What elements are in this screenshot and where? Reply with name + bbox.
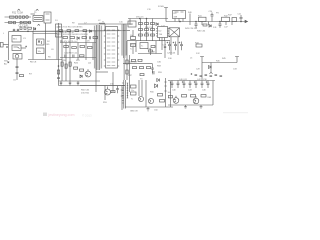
relay RL1 box (44, 12, 51, 23)
wire rail-b (9, 30, 62, 32)
Q10 pins left (104, 30, 106, 66)
node x-mark (8, 62, 10, 64)
resistor R15 (64, 46, 69, 48)
node 5VSB stub (164, 8, 168, 22)
node dot g (180, 21, 181, 22)
capacitor C9 (90, 36, 91, 39)
Q6 legs (174, 96, 176, 102)
Q3 legs (106, 87, 108, 95)
resistor R21 (65, 64, 67, 68)
thermistor TH1 (28, 21, 31, 24)
resistor R14 (93, 37, 98, 39)
resistor CR1 (145, 23, 149, 25)
capacitor C22 (195, 22, 198, 29)
wire vert178 (177, 37, 179, 55)
watermark streak (223, 112, 248, 113)
wire vert127 (126, 41, 128, 80)
wire trunk45 (45, 23, 47, 60)
resistor R27 (126, 70, 128, 74)
relay K1 mark (14, 47, 20, 49)
diode block D1 (56, 24, 62, 37)
transistor Q5 (148, 98, 153, 103)
box M3 (140, 43, 148, 49)
wire stub232 (231, 22, 233, 26)
svg-text:R5: R5 (47, 44, 51, 46)
node dot h (196, 21, 197, 22)
optocoupler U4 box (37, 39, 45, 45)
capacitor C20 (211, 13, 214, 22)
svg-text:U2: U2 (159, 31, 163, 33)
svg-text:10c: 10c (38, 51, 42, 53)
svg-text:U3: U3 (174, 13, 178, 15)
transistor Q6 (173, 98, 179, 104)
svg-text:R63: R63 (208, 97, 213, 99)
node stub2 (235, 57, 239, 63)
svg-text:R25: R25 (74, 63, 79, 65)
resistor CR4 (151, 29, 155, 31)
resistor R39 (138, 59, 142, 61)
capacitor C1 (20, 27, 22, 29)
U3 inner text (175, 11, 184, 13)
wire vert122 (121, 86, 123, 111)
svg-text:R47: R47 (228, 15, 233, 17)
resistor R12 (70, 37, 75, 39)
node tick1 (121, 89, 123, 91)
wire mainrail (20, 30, 130, 33)
svg-text:R53: R53 (103, 102, 108, 104)
wire rail53 (138, 53, 162, 55)
diode D0 (34, 28, 36, 31)
resistor R22 (69, 62, 71, 66)
svg-text:D15 R51: D15 R51 (81, 93, 90, 95)
wire railtop80 (168, 80, 215, 82)
capacitor C41 (177, 81, 180, 89)
node plus p3 (25, 46, 27, 48)
svg-text:R9: R9 (72, 23, 75, 25)
svg-text:R37: R37 (128, 75, 133, 77)
capacitor CX2 (19, 16, 21, 18)
svg-text:L5: L5 (190, 58, 193, 60)
svg-text:C40: C40 (172, 90, 177, 92)
node arrow out (245, 20, 248, 22)
wire vert93 (92, 43, 94, 61)
optocoupler U4 mark (38, 41, 42, 45)
transformer T3 core (124, 80, 126, 109)
wire bottom rail107 (125, 106, 173, 108)
transistor module box Q10 (106, 27, 118, 69)
diode P5 (90, 30, 92, 32)
wire rail72 (96, 71, 108, 73)
capacitor C11 (73, 55, 74, 58)
wire (210, 63, 212, 73)
node plus1 (6, 46, 8, 48)
capacitor C31 (210, 76, 213, 77)
resistor R48 (203, 24, 207, 26)
capacitor C46 (207, 81, 210, 89)
capacitor C14 (77, 81, 79, 86)
inductor L1 filter box (33, 16, 43, 22)
connector edge (0, 43, 3, 48)
wire trunk57 (56, 31, 58, 59)
wire vert105 (104, 86, 106, 101)
node plus t3 (179, 42, 181, 44)
transformer T2b core (123, 24, 125, 58)
wire rail59 (28, 59, 62, 61)
resistor CT3 (139, 34, 143, 36)
wire rail81 (59, 80, 101, 82)
resistor R18 (88, 47, 93, 49)
node tick3 (164, 82, 166, 91)
resistor R52 (111, 91, 115, 93)
svg-text:C5: C5 (13, 80, 17, 82)
svg-text:C10 R19 C11: C10 R19 C11 (64, 53, 78, 55)
resistor R38 (132, 59, 136, 61)
wire stub202 (201, 22, 203, 26)
svg-text:R7: R7 (29, 74, 33, 76)
resistor RM1 (131, 37, 136, 40)
resistor R56 (158, 94, 163, 97)
resistor P2 (67, 30, 71, 32)
resistor R42 (222, 17, 230, 21)
svg-text:AC: AC (4, 63, 7, 66)
wire vert78 (77, 43, 79, 61)
wire stub226 (225, 22, 227, 26)
wire rail63 (123, 63, 153, 65)
resistor R61 (191, 95, 196, 98)
svg-text:750: 750 (159, 34, 163, 36)
resistor R64 (168, 96, 172, 98)
wire vert139 (138, 80, 140, 96)
resistor RX2 (24, 21, 28, 23)
resistor R60 (182, 95, 187, 98)
resistor R54 (131, 85, 137, 88)
wire vert152c (152, 19, 154, 41)
node dot r2 (58, 66, 59, 67)
wire T2b tail (123, 58, 125, 80)
capacitor C42 (183, 81, 186, 89)
node 12V stub (200, 57, 204, 81)
wire (31, 13, 36, 15)
wire left trunk (8, 31, 10, 60)
resistor R26 (126, 60, 128, 64)
svg-text:jestineyong.com: jestineyong.com (48, 113, 75, 117)
wire rail40 (127, 40, 170, 42)
resistor CT2 (139, 29, 143, 31)
switch box S1 (13, 54, 22, 60)
wire rail62 (202, 62, 237, 64)
capacitor C25 (168, 42, 171, 51)
resistor CR7 (151, 46, 155, 48)
resistor R1 (28, 27, 32, 29)
resistor R16 (72, 47, 77, 49)
wire (16, 59, 18, 80)
capacitor CX5 (20, 21, 22, 23)
wire rail85 (59, 85, 126, 87)
capacitor C17b (164, 47, 166, 48)
svg-text:C28: C28 (196, 69, 201, 71)
capacitor C26 (174, 42, 177, 51)
capacitor C4 (16, 73, 19, 74)
wire rail42 (60, 42, 96, 44)
svg-text:C43: C43 (188, 90, 193, 92)
wire (189, 14, 191, 22)
diode D10 (156, 23, 158, 26)
Q10 pins right (118, 30, 120, 66)
resistor CT1 (139, 23, 143, 25)
svg-text:R56: R56 (150, 92, 155, 94)
fuse F1 (10, 16, 15, 18)
svg-text:L: L (3, 33, 5, 35)
wire vert150 (150, 49, 152, 56)
diode block mark (57, 27, 61, 34)
Q7 legs (194, 96, 196, 102)
wire vert133 (132, 30, 134, 37)
wire rail57 (60, 57, 96, 59)
svg-text:C47: C47 (224, 27, 229, 29)
ground 2 (184, 105, 187, 108)
wire vert156 (155, 41, 157, 54)
transistor Q3 (105, 89, 111, 95)
svg-text:R40: R40 (188, 12, 193, 14)
wire vert142 (141, 80, 143, 96)
varistor VR1 (26, 16, 29, 19)
capacitor C48 (151, 64, 154, 73)
transformer T2b left winding (121, 25, 123, 55)
diode D7 (80, 75, 82, 78)
svg-text:R31: R31 (145, 33, 150, 35)
resistor CR3 (145, 29, 149, 31)
wire (104, 24, 106, 31)
svg-text:L2: L2 (98, 20, 101, 22)
wire stub190 (189, 22, 191, 26)
diode D13 (209, 66, 212, 69)
U2 pins left (156, 29, 158, 37)
resistor R49 (232, 18, 237, 22)
wire vert140 (140, 19, 142, 41)
resistor R8 (57, 70, 59, 74)
capacitor CX1 (16, 16, 18, 18)
resistor CR6 (151, 34, 155, 36)
wire vert213 (212, 81, 214, 106)
Q4 legs (139, 98, 141, 101)
svg-text:R46 C34: R46 C34 (197, 31, 206, 33)
svg-text:10c: 10c (131, 90, 134, 92)
resistor R72 (147, 67, 151, 69)
resistor R19 (80, 55, 85, 57)
svg-text:7c: 7c (130, 49, 132, 51)
wire vert171 (170, 37, 172, 55)
node dot l (146, 18, 147, 19)
resistor R20 (61, 62, 63, 66)
svg-text:L1: L1 (34, 12, 37, 14)
svg-text:R11 R12 D6 R13 C9 R14: R11 R12 D6 R13 C9 R14 (63, 34, 88, 36)
svg-text:T3: T3 (140, 79, 143, 81)
Q5 legs (149, 100, 151, 103)
svg-text:C21: C21 (238, 14, 243, 16)
transformer T1 core (96, 25, 99, 70)
capacitor CYa (13, 29, 15, 31)
resistor RX1 (9, 21, 13, 23)
resistor R70 (133, 67, 137, 69)
transistor Q2 (85, 71, 91, 77)
svg-text:R58: R58 (157, 66, 162, 68)
capacitor C28 (195, 75, 198, 76)
capacitor C13 (69, 81, 71, 86)
diode D6 (77, 37, 79, 40)
svg-text:BD1: BD1 (13, 39, 18, 41)
wire vert62 (61, 31, 63, 81)
capacitor CX3 (14, 21, 16, 23)
switch S1 coil (15, 54, 19, 58)
wire vert129 (129, 55, 131, 92)
svg-text:C15: C15 (119, 22, 124, 24)
svg-text:7c: 7c (131, 99, 133, 101)
watermark logo (43, 113, 47, 117)
resistor R13 (82, 37, 87, 39)
Q10 inner rows (107, 30, 115, 66)
capacitor C33 (220, 76, 223, 77)
relay RL1 mark (46, 14, 50, 20)
svg-text:1k 10 4k7 2k2 47: 1k 10 4k7 2k2 47 (59, 32, 75, 34)
wire (5, 16, 32, 18)
svg-text:7c: 7c (141, 46, 144, 48)
resistor R55 (131, 92, 137, 95)
capacitor C27 (180, 42, 183, 51)
capacitor C40 (171, 81, 174, 89)
wire crossrail (33, 33, 57, 35)
resistor R24 (80, 69, 84, 71)
svg-text:C40 C41: C40 C41 (179, 79, 188, 81)
svg-text:© 2013: © 2013 (82, 114, 92, 118)
wire vert165b (164, 41, 166, 58)
wire vert133b (132, 47, 134, 55)
capacitor C38 (116, 86, 119, 93)
capacitor C44 (195, 81, 198, 89)
capacitor C45 (201, 81, 204, 89)
capacitor C2 (24, 27, 26, 29)
wire (3, 44, 8, 46)
wire (21, 47, 26, 49)
wire rail-bot85 (80, 85, 125, 87)
wire (5, 22, 32, 24)
op-amp U2 box (158, 27, 168, 38)
wire vert146 (145, 80, 147, 107)
transformer T3 primary ticks (122, 83, 124, 103)
module box M2 (37, 48, 45, 54)
resistor R41 (199, 17, 207, 21)
svg-text:C36: C36 (157, 62, 162, 64)
wire vert146c (146, 19, 148, 41)
zener D17 (157, 79, 160, 82)
svg-text:C46: C46 (202, 90, 207, 92)
svg-text:C20: C20 (209, 11, 214, 13)
transistor Q7 (193, 98, 199, 104)
fan box FAN1 (169, 28, 180, 37)
capacitor C21 (240, 15, 243, 22)
resistor P1 (59, 30, 63, 32)
diode D14 (209, 25, 211, 28)
U3 pins (175, 19, 183, 22)
node plus t1 (167, 42, 169, 44)
U2 pins bottom (160, 38, 165, 41)
resistor CR5 (145, 34, 149, 36)
svg-text:D2: D2 (47, 41, 50, 43)
relay K1 box (12, 45, 21, 51)
svg-text:D11: D11 (213, 27, 217, 29)
wire trunk58 (58, 23, 60, 86)
inductor L2 (99, 23, 105, 24)
fan cross (169, 28, 180, 37)
node plus c40 (170, 81, 207, 82)
svg-text:C19: C19 (147, 9, 152, 11)
svg-text:D16: D16 (168, 58, 173, 60)
node caret (18, 9, 21, 10)
transformer T2b right winding (125, 25, 127, 55)
resistor R62 (201, 95, 206, 98)
capacitor C32 (215, 75, 218, 76)
svg-text:R23: R23 (76, 60, 81, 62)
resistor P3 (75, 30, 79, 32)
wire railtop18 (128, 18, 168, 20)
bridge BD1 box (12, 36, 21, 43)
inductor L1 windings (34, 17, 42, 19)
resistor R71 (140, 67, 144, 69)
wire stub208 (208, 22, 210, 26)
svg-text:339: 339 (174, 16, 178, 18)
svg-text:R9 C7 D5 R10 C8 D8 R35: R9 C7 D5 R10 C8 D8 R35 (58, 27, 83, 29)
resistor R23 (74, 67, 78, 69)
capacitor C6 (57, 78, 60, 79)
ground 3 (200, 105, 203, 108)
ground (147, 107, 150, 111)
svg-text:RC: RC (129, 24, 133, 26)
capacitor C10 (65, 55, 66, 58)
wire trunk33 (32, 31, 34, 59)
svg-text:C3: C3 (23, 38, 26, 40)
capacitor C37 (153, 71, 154, 74)
node tick2 (121, 95, 123, 97)
svg-text:C50: C50 (154, 110, 159, 112)
svg-text:GND 0V: GND 0V (130, 111, 138, 113)
node plus t2 (173, 42, 175, 44)
wire rail24 (78, 23, 133, 25)
svg-text:C25 C26: C25 C26 (167, 53, 176, 55)
capacitor C12 (60, 81, 62, 86)
svg-text:C33: C33 (233, 69, 238, 71)
svg-text:R6: R6 (48, 57, 51, 59)
resistor R44 (196, 44, 202, 47)
resistor R57 (160, 100, 165, 103)
capacitor CY1 (23, 16, 25, 18)
node dot k (139, 18, 140, 19)
resistor R11 (63, 37, 68, 39)
resistor R2 (20, 75, 24, 77)
svg-text:C6: C6 (51, 49, 54, 51)
resistor RM2 (131, 44, 136, 47)
op-amp U3 supervisor (173, 11, 186, 19)
resistor R17 (80, 46, 85, 48)
svg-text:PS: PS (216, 13, 219, 15)
svg-text:FS1 T2.5A: FS1 T2.5A (12, 12, 23, 15)
wire vert70 (69, 31, 71, 81)
svg-text:Q2: Q2 (88, 63, 92, 65)
capacitor C23 (219, 22, 222, 28)
transformer T1 secondary winding (100, 26, 102, 68)
svg-text:D1: D1 (55, 20, 58, 22)
wire vert162 (161, 41, 163, 50)
resistor CR8 (149, 50, 153, 52)
node dot i (220, 21, 221, 22)
